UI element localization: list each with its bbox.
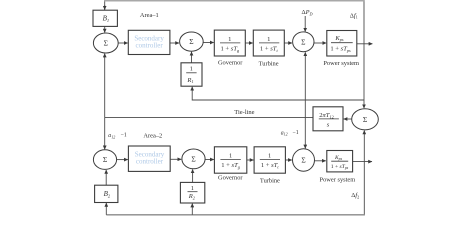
block secondary controller 2 <box>128 146 170 171</box>
wire arrow into B1 top <box>104 5 106 10</box>
wire power system 1 output Df1 <box>357 43 373 45</box>
svg-text:Turbine: Turbine <box>259 60 279 67</box>
svg-text:Area–2: Area–2 <box>143 132 162 139</box>
wire bottom feedback line <box>106 214 365 216</box>
block power system 2 <box>327 151 353 172</box>
wire S2 to governor 1 <box>203 42 214 44</box>
wire controller 1 to summer S2 <box>170 42 179 44</box>
summer S3 <box>293 32 314 52</box>
svg-text:Area–1: Area–1 <box>140 12 159 19</box>
block secondary controller 1 <box>128 30 170 54</box>
block turbine 1 <box>253 30 284 56</box>
wire top feedback line (Df1 to B1) <box>363 1 365 44</box>
summer S1 <box>93 33 118 53</box>
wire controller 2 to S5 <box>171 158 182 160</box>
wire tie-line output long line <box>105 117 313 119</box>
svg-text:−1: −1 <box>293 130 299 136</box>
svg-text:Power system: Power system <box>320 177 356 184</box>
block B2 <box>95 185 118 202</box>
block 1/R1 <box>181 63 202 86</box>
wire Df2 vertical down to bottom line <box>363 162 365 215</box>
svg-text:Σ: Σ <box>104 39 108 48</box>
wire 1/R1 to S2 bottom <box>191 52 193 63</box>
wire tie line a12 down into S4 top <box>104 118 106 150</box>
svg-text:a12: a12 <box>281 130 288 136</box>
wire 1/R1 feedback branch <box>192 87 364 100</box>
summer S4 <box>93 150 116 170</box>
wire power system 2 output Df2 <box>353 161 372 163</box>
svg-text:1 + sTt: 1 + sTt <box>261 162 280 169</box>
block governor 1 <box>214 30 245 56</box>
wire S3 to power system 1 <box>314 42 326 44</box>
block 1/R2 <box>180 182 204 203</box>
wire DPD drop into S3 <box>304 16 306 32</box>
svg-text:a12: a12 <box>108 133 115 139</box>
summer S5 <box>182 149 205 169</box>
block governor 2 <box>214 147 246 173</box>
wire S4 to secondary controller 2 <box>117 159 128 161</box>
svg-text:1: 1 <box>267 36 270 43</box>
wire governor 2 to turbine 2 <box>247 159 254 161</box>
svg-text:1: 1 <box>191 185 194 192</box>
wire tie summer to 2piT12 block <box>344 118 352 120</box>
svg-text:Tie-line: Tie-line <box>234 109 254 116</box>
summer S-tie <box>352 109 379 130</box>
wire tie branch up into S3 bottom <box>304 52 306 117</box>
block 2piT12/s <box>313 107 343 131</box>
svg-text:1: 1 <box>228 36 231 43</box>
summer S6 <box>293 149 315 171</box>
svg-text:ΔPD: ΔPD <box>302 9 313 16</box>
svg-text:Δf2: Δf2 <box>351 192 359 199</box>
wire turbine 2 to summer S6 <box>285 159 291 161</box>
svg-text:1: 1 <box>268 152 271 159</box>
wire Df2 up into tie summer bottom <box>363 131 365 162</box>
wire governor 1 to turbine 1 <box>245 42 252 44</box>
svg-text:Σ: Σ <box>191 155 195 164</box>
block B1 <box>93 10 117 26</box>
wire B1 to summer S1 <box>104 26 106 32</box>
svg-text:Σ: Σ <box>103 155 107 164</box>
wire turbine 1 to summer S3 <box>284 42 292 44</box>
svg-text:−1: −1 <box>121 133 127 139</box>
block power system 1 <box>327 31 357 57</box>
wire S6 to power system 2 <box>315 160 326 162</box>
wire tie branch a12 down into S6 top <box>304 118 306 149</box>
svg-text:Turbine: Turbine <box>260 177 280 184</box>
svg-text:Σ: Σ <box>363 115 367 124</box>
svg-text:Σ: Σ <box>301 37 305 46</box>
wire B2 to S4 bottom <box>105 170 107 185</box>
svg-text:1: 1 <box>190 66 193 73</box>
svg-text:Σ: Σ <box>301 156 305 165</box>
wire tie line up into S1 bottom <box>104 54 106 118</box>
wire Df1 vertical feedback down right side <box>363 44 365 108</box>
wire S5 to governor 2 <box>205 159 214 161</box>
wire S1 to secondary controller 1 <box>118 42 128 44</box>
svg-text:controller: controller <box>135 42 163 50</box>
svg-text:Δf1: Δf1 <box>350 12 358 19</box>
wire bottom line riser to 1/R2 <box>191 204 193 215</box>
wire 1/R2 to S5 bottom <box>192 169 194 182</box>
svg-text:s: s <box>327 122 330 129</box>
summer S2 <box>180 32 204 51</box>
svg-text:Governor: Governor <box>218 174 243 181</box>
block turbine 2 <box>254 147 285 173</box>
wire riser into B2 bottom <box>105 203 107 215</box>
svg-text:Governor: Governor <box>218 59 243 66</box>
svg-text:Σ: Σ <box>189 37 193 46</box>
svg-text:1 + sTt: 1 + sTt <box>260 46 279 53</box>
svg-text:controller: controller <box>136 158 164 166</box>
svg-text:Power system: Power system <box>323 60 359 67</box>
svg-text:1: 1 <box>229 152 232 159</box>
